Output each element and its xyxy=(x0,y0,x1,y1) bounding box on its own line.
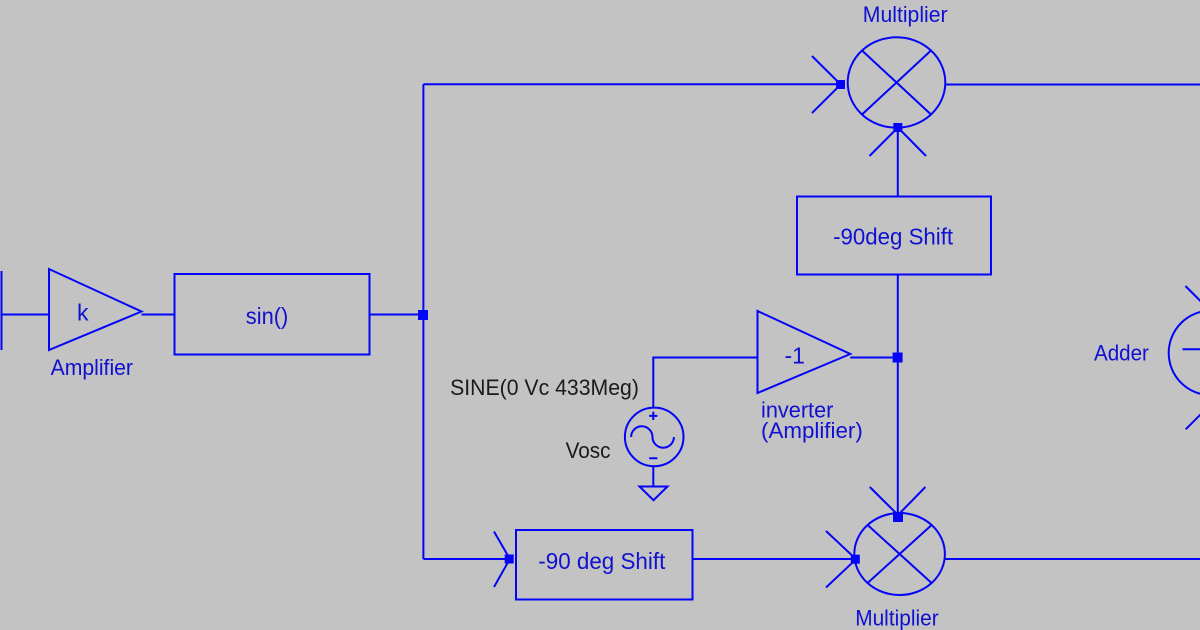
svg-text:SINE(0 Vc 433Meg): SINE(0 Vc 433Meg) xyxy=(450,375,639,400)
svg-text:Multiplier: Multiplier xyxy=(863,2,948,27)
svg-text:Adder: Adder xyxy=(1094,341,1149,366)
svg-text:Multiplier: Multiplier xyxy=(855,606,939,630)
svg-text:Vosc: Vosc xyxy=(566,438,611,463)
svg-text:-1: -1 xyxy=(785,343,805,369)
svg-text:(Amplifier): (Amplifier) xyxy=(761,418,863,443)
svg-text:sin(): sin() xyxy=(246,303,288,329)
svg-text:Amplifier: Amplifier xyxy=(51,355,133,380)
svg-text:-90 deg Shift: -90 deg Shift xyxy=(538,548,666,574)
svg-text:-90deg Shift: -90deg Shift xyxy=(833,223,954,249)
svg-text:k: k xyxy=(77,300,89,326)
